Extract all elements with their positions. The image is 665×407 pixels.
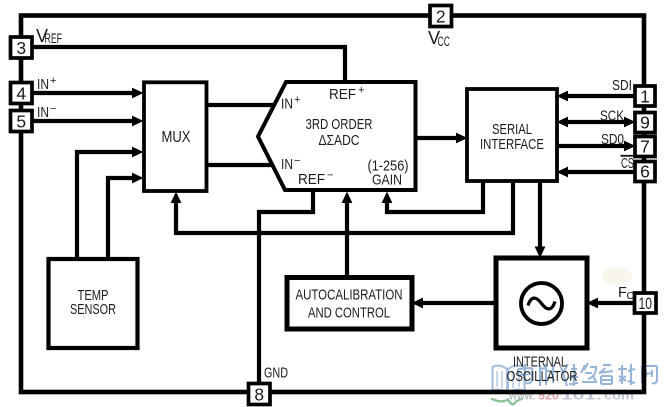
- arrow into serial interface from ADC: [456, 133, 468, 144]
- wire temp sensor output 1 to MUX: [77, 152, 136, 260]
- arrow autocalibration into ADC bottom: [342, 192, 353, 204]
- wire ADC REF- to GND pin8: [259, 189, 313, 385]
- arrow into MUX IN+: [132, 88, 144, 99]
- svg-text:7: 7: [640, 137, 650, 157]
- svg-text:5: 5: [16, 111, 26, 131]
- svg-text:IN: IN: [281, 156, 293, 173]
- svg-text:SD0: SD0: [601, 131, 624, 148]
- svg-text:IN: IN: [37, 76, 49, 93]
- svg-text:SDI: SDI: [612, 77, 632, 94]
- svg-text:2: 2: [436, 6, 446, 26]
- pin 8 (GND): [249, 384, 271, 405]
- arrow SDO into pin7: [624, 141, 636, 152]
- svg-text:−: −: [294, 155, 300, 167]
- arrowheads: [132, 88, 636, 309]
- wire pin5 to MUX IN-: [32, 119, 136, 123]
- svg-text:−: −: [327, 170, 333, 182]
- wire ADC output to serial interface: [414, 136, 459, 140]
- wire autocalibration to ADC: [345, 200, 349, 278]
- wire pin10 FO to oscillator: [595, 301, 634, 305]
- svg-text:AUTOCALIBRATION: AUTOCALIBRATION: [296, 287, 403, 304]
- wire serial interface feedback to MUX: [176, 180, 513, 233]
- wire oscillator to autocalibration: [420, 301, 495, 305]
- svg-text:IN: IN: [37, 104, 49, 121]
- arrow SCK into pin9: [624, 117, 636, 128]
- svg-text:4: 4: [16, 83, 26, 103]
- wire pin4 to MUX IN+: [32, 91, 136, 95]
- svg-text:3RD ORDER: 3RD ORDER: [306, 116, 373, 133]
- pin 5 (IN-): [11, 111, 33, 132]
- svg-text:SCK: SCK: [600, 108, 624, 125]
- svg-text:3: 3: [16, 38, 26, 58]
- pin 1 (SDI): [635, 86, 655, 106]
- wire serial interface to internal oscillator: [538, 180, 542, 250]
- svg-text:AND CONTROL: AND CONTROL: [308, 305, 390, 322]
- wire MUX to ADC lower: [206, 163, 274, 167]
- svg-text:INTERFACE: INTERFACE: [480, 136, 544, 153]
- svg-text:REF: REF: [329, 86, 356, 103]
- wire CS pin6 to serial interface: [565, 170, 636, 174]
- arrow FO into oscillator: [587, 298, 599, 309]
- arrow feedback into MUX bottom: [171, 192, 182, 204]
- svg-text:IN: IN: [281, 96, 293, 113]
- pin 6 (CS): [635, 162, 655, 182]
- svg-text:O: O: [627, 290, 635, 302]
- arrow into MUX input 3: [132, 147, 144, 158]
- svg-text:1: 1: [640, 86, 650, 106]
- watermark chinese text 电脑维修资料网 (approximated strokes): [518, 363, 657, 386]
- arrow oscillator into autocalibration: [412, 298, 424, 309]
- svg-text:+: +: [294, 94, 300, 106]
- svg-text:CS: CS: [621, 155, 634, 172]
- arrow into MUX input 4: [132, 173, 144, 184]
- svg-text:10: 10: [639, 295, 653, 313]
- svg-text:+: +: [358, 85, 364, 97]
- block temp sensor: [49, 259, 138, 348]
- block internal oscillator: [496, 258, 587, 348]
- watermark url www.520101.com: [508, 391, 634, 403]
- svg-text:8: 8: [254, 384, 264, 404]
- wire SDI pin1 to serial interface: [565, 94, 636, 98]
- svg-text:OSCILLATOR: OSCILLATOR: [507, 368, 578, 385]
- watermark book logo: [491, 366, 525, 393]
- wire SDO serial interface to pin7: [556, 144, 627, 148]
- oscillator sine symbol: [521, 283, 562, 324]
- arrow gain control into ADC bottom: [382, 192, 393, 204]
- svg-text:REF: REF: [45, 31, 63, 46]
- pin 9 (SCK): [635, 113, 655, 133]
- arrow into MUX IN-: [132, 116, 144, 127]
- svg-text:6: 6: [640, 162, 650, 182]
- arrow SDI into serial interface: [557, 91, 569, 102]
- svg-text:REF: REF: [298, 171, 325, 188]
- svg-text:MUX: MUX: [162, 129, 192, 146]
- CS overline: [621, 155, 635, 157]
- svg-text:GND: GND: [264, 365, 288, 382]
- faint background smudge: [602, 267, 632, 285]
- block serial interface: [467, 89, 557, 181]
- arrow serial interface into oscillator top: [535, 247, 546, 259]
- pin 7 (SDO): [635, 137, 655, 157]
- svg-text:ΔΣADC: ΔΣADC: [319, 132, 360, 149]
- pin 10 (FO): [635, 293, 657, 313]
- wire serial interface to ADC gain control: [387, 180, 483, 212]
- wire VREF: pin3 to REF+ of ADC: [32, 47, 345, 82]
- svg-text:CC: CC: [438, 34, 451, 49]
- svg-text:SENSOR: SENSOR: [70, 301, 116, 318]
- pin 4 (IN+): [11, 83, 33, 104]
- wire SCK pin9 to serial interface (bidirectional): [565, 120, 627, 124]
- svg-text:+: +: [50, 75, 56, 87]
- wire temp sensor output 2 to MUX: [108, 178, 136, 260]
- block ADC (3rd order delta-sigma) hexagon: [258, 82, 416, 190]
- pin 3 (VREF): [11, 37, 33, 58]
- arrow CS into serial interface: [557, 167, 569, 178]
- watermark green swoosh: [491, 399, 522, 405]
- block MUX: [144, 82, 207, 191]
- svg-text:−: −: [50, 103, 56, 115]
- block autocalibration and control: [287, 278, 412, 330]
- pin 2 (VCC): [430, 6, 452, 27]
- arrow SCK into serial interface: [557, 117, 569, 128]
- svg-text:9: 9: [640, 113, 650, 133]
- svg-text:GAIN: GAIN: [372, 172, 402, 189]
- wire MUX to ADC upper: [206, 103, 276, 107]
